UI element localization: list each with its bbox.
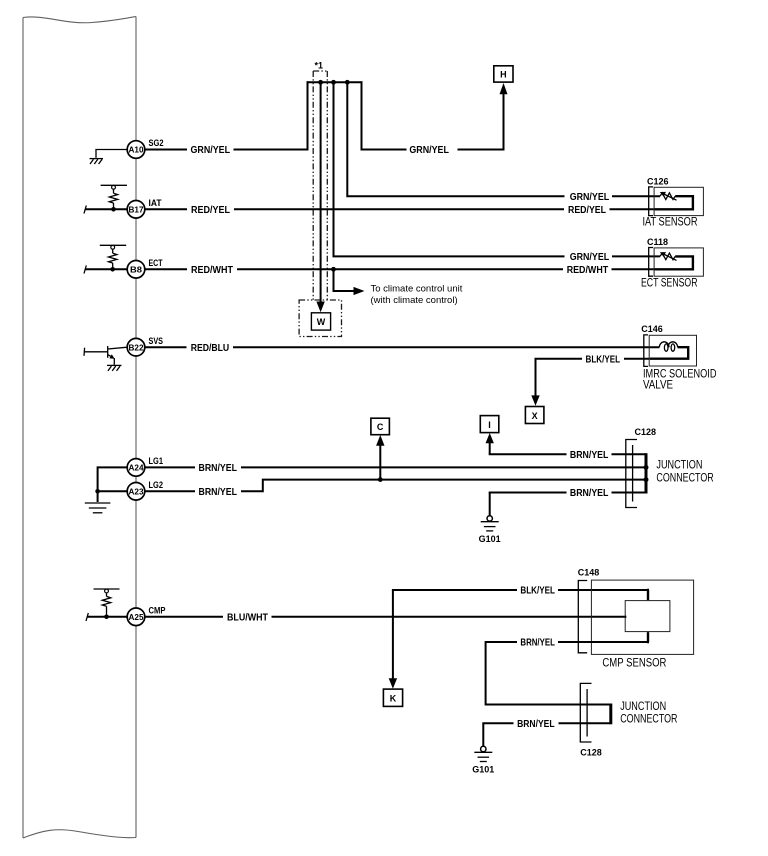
junction connector C128 bracket — [626, 440, 637, 508]
svg-text:CMP: CMP — [149, 605, 167, 616]
svg-text:SG2: SG2 — [149, 138, 164, 149]
wire RED/YEL long run — [234, 208, 564, 210]
wire riser to C — [379, 445, 381, 480]
wire RED/BLU long run to IMRC — [233, 346, 659, 348]
wire BRN/YEL from A24 — [145, 466, 195, 468]
svg-text:C118: C118 — [647, 237, 668, 247]
svg-text:VALVE: VALVE — [643, 379, 673, 391]
IAT sensor internal link — [655, 196, 693, 209]
connector pin A10 — [127, 141, 145, 159]
svg-text:BRN/YEL: BRN/YEL — [520, 638, 555, 649]
svg-text:C146: C146 — [641, 324, 663, 334]
wire A23 to ground tie — [97, 490, 128, 492]
ground G101 — [479, 516, 501, 544]
svg-text:CONNECTOR: CONNECTOR — [620, 714, 677, 726]
svg-text:A10: A10 — [129, 145, 144, 155]
svg-text:BRN/YEL: BRN/YEL — [517, 719, 555, 730]
wire GRN/YEL from A10 to riser — [145, 149, 187, 151]
connector pin B17 — [127, 201, 145, 219]
wire break slash (B17 left) — [84, 206, 86, 214]
ECT sensor box — [654, 248, 703, 276]
connector bracket C148 — [578, 581, 587, 653]
svg-text:ECT SENSOR: ECT SENSOR — [641, 277, 698, 289]
svg-text:A23: A23 — [129, 486, 144, 496]
CMP internal lead BLU/WHT — [625, 616, 626, 618]
svg-text:GRN/YEL: GRN/YEL — [191, 145, 231, 156]
svg-text:BRN/YEL: BRN/YEL — [570, 450, 609, 461]
connector pin B8 — [127, 261, 145, 279]
ground (earth) at A24/A23 — [85, 503, 111, 513]
wire break slash (B8 left) — [84, 266, 86, 274]
ground G101 (second) — [472, 746, 494, 774]
wire to H riser — [458, 94, 504, 150]
shield dash-dot top cap — [313, 70, 327, 72]
IMRC solenoid box — [649, 335, 696, 366]
arrowhead into I — [486, 433, 494, 443]
wire RED/WHT into ECT sensor — [612, 268, 656, 270]
wire RED/WHT from B8 — [145, 268, 187, 270]
svg-text:C128: C128 — [635, 427, 657, 437]
wire BLK/YEL from IMRC — [624, 358, 649, 360]
wire GRN/YEL toward H — [362, 149, 407, 151]
svg-text:BRN/YEL: BRN/YEL — [199, 487, 238, 498]
junction connector 2 bus bar — [609, 704, 612, 725]
wire LG2 step up and run to junction connector — [241, 480, 646, 492]
svg-text:H: H — [500, 69, 507, 79]
wire BLU/WHT from A25 — [145, 616, 223, 618]
ECM/PCM unit outline (torn-edge box) — [23, 17, 136, 839]
svg-text:B22: B22 — [129, 342, 144, 352]
svg-text:CMP SENSOR: CMP SENSOR — [602, 658, 666, 670]
junction connector 2 bracket — [580, 683, 591, 742]
svg-text:BRN/YEL: BRN/YEL — [570, 488, 609, 499]
junction dot resistor to CMP wire — [104, 615, 109, 620]
svg-text:IAT: IAT — [149, 198, 162, 209]
connector box H — [494, 66, 513, 82]
CMP sensor box — [591, 580, 693, 654]
junction dot ground tie — [95, 489, 100, 494]
wire right riser down from bus — [361, 81, 363, 150]
svg-text:BRN/YEL: BRN/YEL — [199, 463, 238, 474]
svg-text:IAT SENSOR: IAT SENSOR — [643, 217, 698, 229]
arrowhead into X — [531, 395, 539, 405]
connector box K — [383, 689, 402, 706]
wire into junction connector 2 — [559, 722, 611, 724]
connector pin A25 — [127, 608, 145, 626]
wire drop to IAT GRN/YEL row — [347, 82, 564, 196]
junction dot C tap on LG2 — [378, 477, 383, 482]
wire break slash (A25 left) — [86, 613, 88, 621]
connector bracket C126 — [649, 187, 653, 216]
junction connector 2 inner wall — [586, 689, 588, 737]
svg-text:C: C — [377, 422, 384, 432]
ECT sensor internal link — [655, 256, 693, 269]
connector box C — [371, 418, 390, 435]
junction connector C128 bus bar — [645, 453, 648, 493]
connector box W — [311, 313, 330, 330]
junction dot bus row 3 — [644, 477, 649, 482]
svg-text:B17: B17 — [129, 204, 144, 214]
ground (chassis) at B22 emitter — [107, 365, 122, 371]
arrowhead to climate control — [354, 287, 365, 295]
connector pin A24 — [127, 459, 145, 477]
arrowhead into H — [500, 83, 508, 94]
svg-text:B8: B8 — [130, 264, 142, 274]
wire riser to I — [489, 442, 491, 454]
junction dot on bus (IAT drop) — [345, 80, 350, 85]
resistor pull-up at A25 (internal) — [94, 589, 120, 617]
wire BRN/YEL G101 row — [490, 492, 567, 493]
wire branch to climate control — [334, 269, 357, 291]
wire BRN/YEL from CMP sensor — [558, 641, 649, 643]
svg-text:C148: C148 — [578, 567, 600, 577]
svg-text:JUNCTION: JUNCTION — [620, 701, 666, 713]
wire A24 to ground tie — [98, 467, 128, 502]
thermistor element (IAT) — [660, 192, 677, 200]
wire into junction connector row 1 — [612, 453, 647, 455]
svg-text:X: X — [532, 411, 538, 421]
wire riser down to K — [392, 590, 394, 680]
svg-text:BLK/YEL: BLK/YEL — [586, 354, 621, 365]
svg-text:I: I — [488, 420, 491, 430]
wire RED/YEL into IAT sensor — [610, 208, 656, 210]
svg-text:BLU/WHT: BLU/WHT — [227, 613, 268, 624]
wire into junction connector row 4 — [612, 492, 647, 494]
wire BLK/YEL corner and run — [393, 590, 517, 591]
wire SG2 riser to top bus — [234, 81, 308, 149]
thermistor element (ECT) — [660, 252, 677, 260]
IMRC internal link — [650, 347, 689, 359]
wire down to G101 — [489, 493, 491, 516]
svg-text:RED/WHT: RED/WHT — [567, 265, 609, 276]
svg-text:A25: A25 — [129, 612, 144, 622]
shield dash-dot right line — [326, 71, 328, 300]
svg-text:W: W — [317, 317, 326, 327]
dash-dot box around W — [299, 300, 341, 337]
wire BLU/WHT run to CMP sensor — [272, 616, 627, 618]
CMP internal lead BRN/YEL — [648, 632, 649, 642]
wire BLK/YEL to X riser — [536, 359, 583, 397]
wire ECT stub from break to B8 — [85, 268, 127, 270]
svg-text:GRN/YEL: GRN/YEL — [409, 145, 449, 156]
svg-text:ECT: ECT — [149, 258, 163, 269]
resistor pull-up at B8 (internal) — [100, 245, 126, 269]
svg-text:GRN/YEL: GRN/YEL — [570, 252, 610, 263]
svg-text:C126: C126 — [647, 177, 669, 187]
wire BRN/YEL G101 row 2 — [483, 723, 513, 724]
CMP sensor inner element box — [625, 601, 670, 632]
junction dot resistor to IAT wire — [111, 207, 116, 212]
wire GRN/YEL into IAT sensor — [612, 195, 660, 197]
wire BRN/YEL from I corner — [490, 454, 567, 455]
svg-text:SVS: SVS — [149, 336, 164, 347]
svg-text:C128: C128 — [580, 747, 602, 757]
svg-text:K: K — [390, 694, 397, 704]
connector pin A23 — [127, 483, 145, 501]
arrowhead into K — [389, 678, 397, 688]
svg-text:RED/YEL: RED/YEL — [191, 205, 230, 216]
wire down to G101 (second) — [482, 723, 484, 746]
svg-text:LG1: LG1 — [149, 456, 164, 467]
junction connector C128 inner wall — [632, 445, 634, 502]
wire BLK/YEL into CMP connector — [558, 589, 649, 591]
connector box X — [525, 407, 544, 424]
transistor driver at B22 (internal) — [84, 346, 127, 365]
wire shielded drop to W — [320, 82, 322, 302]
svg-text:*1: *1 — [315, 61, 324, 71]
svg-text:GRN/YEL: GRN/YEL — [570, 192, 610, 203]
shield dash-dot left line — [312, 71, 314, 300]
IAT sensor box — [654, 187, 703, 215]
svg-text:CONNECTOR: CONNECTOR — [656, 472, 713, 484]
svg-text:LG2: LG2 — [149, 480, 164, 491]
junction dot RED/WHT branch — [331, 267, 336, 272]
svg-text:JUNCTION: JUNCTION — [656, 460, 702, 472]
svg-text:A24: A24 — [129, 463, 144, 473]
resistor pull-up at B17 (internal) — [101, 185, 127, 209]
svg-text:BLK/YEL: BLK/YEL — [520, 586, 555, 597]
wire LG1 run to junction connector — [241, 466, 646, 468]
junction dot on bus (W drop) — [318, 80, 323, 85]
junction dot resistor to ECT wire — [110, 267, 115, 272]
svg-text:RED/WHT: RED/WHT — [191, 265, 233, 276]
wire BRN/YEL from A23 — [145, 490, 195, 492]
connector pin B22 — [127, 338, 145, 356]
svg-text:G101: G101 — [472, 765, 494, 775]
svg-text:(with climate control): (with climate control) — [371, 295, 458, 306]
wire top bus — [307, 81, 363, 83]
arrowhead into C — [376, 435, 384, 446]
connector bracket C146 — [644, 335, 648, 367]
junction dot bus row 2 — [644, 465, 649, 470]
wire RED/WHT long run — [237, 268, 563, 270]
wire IAT stub from break to B17 — [85, 208, 127, 210]
svg-text:RED/YEL: RED/YEL — [568, 205, 606, 216]
wire GRN/YEL into ECT sensor — [612, 255, 660, 257]
wire BRN/YEL down to junction connector 2 — [486, 642, 610, 705]
wire RED/YEL from B17 — [145, 208, 187, 210]
ground (chassis) at A10 — [90, 150, 128, 165]
connector bracket C118 — [649, 248, 653, 277]
junction dot on bus (ECT drop) — [331, 80, 336, 85]
wire drop to ECT GRN/YEL row — [334, 82, 565, 256]
svg-text:G101: G101 — [479, 534, 501, 544]
wire CMP stub from break to A25 — [87, 616, 127, 618]
CMP internal lead BLK/YEL — [648, 590, 649, 600]
solenoid coil — [659, 342, 677, 352]
svg-text:To climate control unit: To climate control unit — [371, 283, 463, 294]
arrowhead into W — [316, 302, 324, 313]
wire RED/BLU from B22 — [145, 346, 187, 348]
svg-text:RED/BLU: RED/BLU — [191, 343, 230, 354]
connector box I — [480, 416, 499, 433]
